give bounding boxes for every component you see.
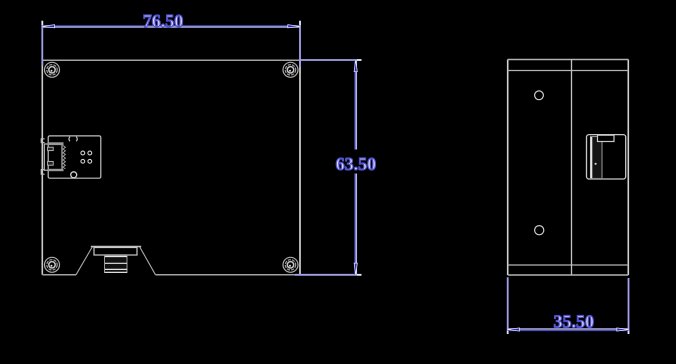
side view bottom band line	[508, 264, 629, 266]
clip bump right slope	[140, 247, 156, 275]
main plate outline (front view) with DIN-clip bump at bottom	[41, 60, 43, 275]
connector bottom hole	[71, 172, 77, 178]
USB shell thick bottom bar	[48, 169, 64, 171]
USB shell left flange bottom	[41, 170, 44, 175]
USB shell contact zigzag	[63, 146, 65, 169]
dimension 63.50 extension line top	[299, 59, 362, 61]
side view connector notch	[598, 135, 615, 141]
connector pin holes 2x2	[81, 151, 92, 163]
dimension 35.50 extension line left	[507, 277, 509, 334]
main plate bottom edge right segment	[156, 274, 301, 276]
clip inner rectangle	[94, 248, 137, 256]
side view connector dark block	[591, 137, 603, 179]
dimension 35.50 arrow right	[617, 328, 629, 331]
main plate bottom edge left segment	[42, 274, 76, 276]
dimension 63.50 line upper segment	[354, 60, 356, 150]
dimension 63.50 line lower segment	[354, 174, 356, 275]
dimension 76.50 extension line right	[299, 21, 301, 67]
clip bump left slope	[76, 247, 93, 275]
screw bottom-left	[45, 257, 60, 272]
side view hole bottom	[535, 226, 544, 235]
USB shell slot top	[48, 147, 54, 150]
extension line white tip caps	[42, 21, 628, 334]
side view hole top	[535, 91, 544, 100]
dimension 63.50 extension line bottom	[295, 274, 362, 276]
side view connector block speck	[595, 163, 597, 165]
USB shell thick top bar	[48, 142, 64, 145]
dimension 63.50 arrow top	[354, 60, 357, 72]
dimension 63.50 arrow bottom	[354, 263, 357, 275]
clip striped latch block	[105, 256, 128, 273]
svg-text:35.50: 35.50	[554, 312, 595, 332]
dimension 35.50 extension line right	[628, 278, 630, 334]
main plate right edge	[299, 60, 301, 275]
dimension 76.50 arrow left	[42, 25, 54, 28]
main plate top edge	[42, 59, 300, 61]
svg-text:63.50: 63.50	[336, 154, 377, 174]
dimension 76.50 extension line left	[41, 21, 43, 66]
screw bottom-right	[283, 257, 298, 272]
USB shell left flange top	[41, 139, 44, 143]
USB shell slot bottom	[48, 161, 54, 165]
side view top band line	[508, 70, 629, 72]
svg-text:76.50: 76.50	[143, 11, 184, 31]
dimension 35.50 line	[508, 328, 629, 330]
dimension 76.50 line	[42, 25, 300, 27]
connector top orientation arcs	[69, 137, 77, 142]
side view connector block left bright edge	[590, 137, 592, 178]
side view connector body	[587, 135, 626, 179]
dimension 76.50 arrow right	[288, 25, 300, 28]
side view divider line	[571, 60, 573, 276]
screw top-left	[45, 62, 60, 77]
screw top-right	[283, 62, 298, 77]
USB shell outline	[44, 144, 62, 170]
dimension 35.50 arrow left	[508, 328, 520, 331]
clip bump top line	[91, 246, 141, 248]
USB connector body (front view)	[48, 136, 101, 178]
side view outer rectangle	[507, 60, 509, 276]
